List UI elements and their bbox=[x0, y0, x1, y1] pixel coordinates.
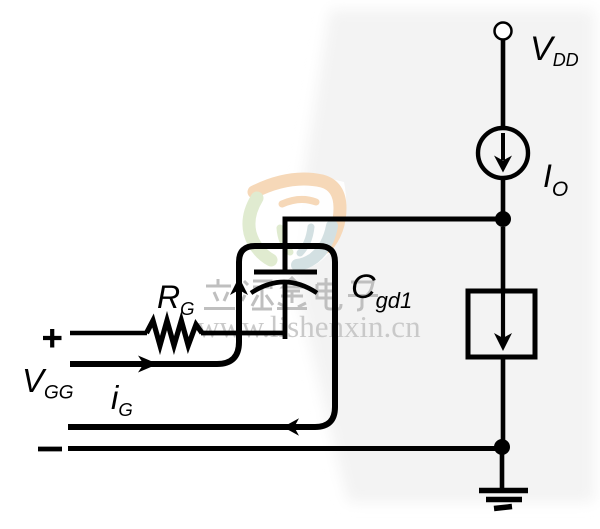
arrow iG left on lower return bbox=[283, 418, 299, 435]
controlled source box bbox=[468, 291, 535, 357]
label minus bbox=[38, 447, 62, 452]
arrow iG right on upper return bbox=[138, 356, 158, 373]
svg-text:iG: iG bbox=[111, 379, 133, 420]
svg-text:www.lishenxin.cn: www.lishenxin.cn bbox=[197, 309, 421, 344]
wire node A to controlled source box bbox=[501, 227, 506, 291]
arrow iG up on loop left side bbox=[230, 277, 248, 295]
node A junction dot bbox=[495, 211, 511, 227]
arrow inside controlled source bbox=[501, 293, 505, 340]
wire node A to capacitor top bbox=[285, 219, 503, 272]
svg-text:VGG: VGG bbox=[22, 362, 74, 404]
ground bbox=[479, 447, 528, 509]
wire bottom rail to node B bbox=[68, 446, 502, 451]
label plus bbox=[43, 329, 62, 348]
capacitor Cgd1 bbox=[251, 272, 317, 293]
terminal VDD bbox=[495, 23, 512, 40]
node B junction dot bbox=[494, 439, 510, 455]
wire VDD terminal to current source bbox=[501, 40, 506, 129]
resistor RG bbox=[147, 321, 203, 346]
wire plus input to resistor bbox=[70, 331, 147, 336]
svg-text:RG: RG bbox=[157, 279, 195, 319]
wire box to node B bbox=[501, 357, 506, 447]
wire capacitor bottom to resistor node bbox=[201, 283, 285, 339]
current source IO bbox=[478, 128, 528, 178]
current path iG loop wire bbox=[68, 246, 335, 427]
wire current source to node A bbox=[501, 178, 506, 219]
